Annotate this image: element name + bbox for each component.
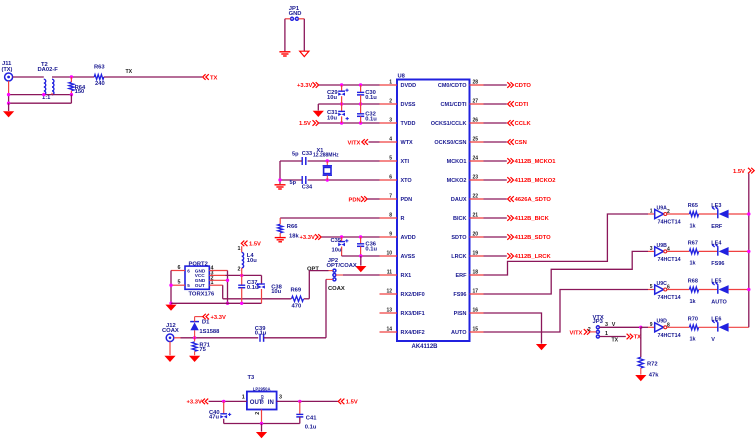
svg-text:TVDD: TVDD xyxy=(401,121,416,127)
U8 right pin 17 FS96 xyxy=(470,293,484,295)
connector J12 COAX xyxy=(166,334,174,342)
svg-text:5: 5 xyxy=(187,283,190,288)
inverter U9C 74HCT14 xyxy=(648,289,655,291)
capacitor C31 10u xyxy=(341,104,343,111)
svg-text:4112B_LRCK: 4112B_LRCK xyxy=(515,254,552,260)
U8 left pin 8 R xyxy=(380,217,398,219)
net label 4112B_SDTO xyxy=(507,234,513,240)
svg-text:150: 150 xyxy=(75,89,85,95)
wire ERF pin18 to U9A input xyxy=(484,214,649,275)
svg-text:MCKO2: MCKO2 xyxy=(447,178,467,184)
svg-text:AVSS: AVSS xyxy=(401,254,416,260)
svg-text:74HCT14: 74HCT14 xyxy=(658,333,681,339)
svg-text:0.1u: 0.1u xyxy=(365,95,377,101)
svg-text:R65: R65 xyxy=(688,203,698,209)
svg-text:XTO: XTO xyxy=(401,178,413,184)
svg-text:MCKO1: MCKO1 xyxy=(447,159,467,165)
svg-text:75: 75 xyxy=(199,347,206,353)
svg-text:TX: TX xyxy=(210,75,218,81)
net label CDTI xyxy=(508,101,514,107)
svg-text:D1: D1 xyxy=(202,319,210,325)
junction dots primary bottom xyxy=(7,93,10,96)
svg-text:V: V xyxy=(711,337,715,343)
capacitor C32 0.1u xyxy=(360,104,362,114)
wire 1.5V to pin3 TVDD xyxy=(319,122,380,124)
U8 right pin 22 DAUX xyxy=(470,198,484,200)
wire XTO pin6 xyxy=(308,179,380,181)
wire PORT2 pin3 VCC rail xyxy=(209,274,225,276)
junction dots PORT2 left xyxy=(169,284,172,287)
op IC U8 AK4112B body xyxy=(397,80,470,342)
svg-text:1k: 1k xyxy=(690,299,697,305)
svg-text:RX2/DIF0: RX2/DIF0 xyxy=(401,292,425,298)
svg-text:DVSS: DVSS xyxy=(401,102,416,108)
wire JP3 pin3 to U9D node xyxy=(599,326,640,328)
wire U9D node to U9D input xyxy=(641,326,648,328)
svg-text:CM0/CDTO: CM0/CDTO xyxy=(438,83,467,89)
svg-text:17: 17 xyxy=(473,288,479,294)
svg-text:OCKS0/CSN: OCKS0/CSN xyxy=(434,140,466,146)
svg-text:LE5: LE5 xyxy=(711,279,721,285)
ground open-triangle right of JP1 xyxy=(300,51,309,56)
resistor R64 150 xyxy=(70,77,72,82)
wire primary bottom rail xyxy=(9,94,72,96)
U8 right pin 24 MCKO1 xyxy=(470,160,484,162)
wire C33 left to ground leg xyxy=(280,160,302,162)
power 1.5V label above L4 xyxy=(241,241,247,247)
svg-text:AUTO: AUTO xyxy=(451,330,467,336)
wire FS96 pin17 to U9B input xyxy=(484,251,649,294)
wire LE3 to 1.5V rail xyxy=(729,213,749,215)
U8 right pin 18 ERF xyxy=(470,274,484,276)
svg-text:0.1u: 0.1u xyxy=(365,117,377,123)
wire pin 21 to net 4112B_BICK xyxy=(484,217,507,219)
jumper JP2 OPT/COAX xyxy=(333,269,336,272)
wire J12 shell to ground xyxy=(169,342,171,356)
ground at PISN xyxy=(536,344,547,350)
svg-text:1: 1 xyxy=(650,209,653,215)
svg-text:R69: R69 xyxy=(291,287,302,293)
wire U9C output to R68 xyxy=(667,289,690,291)
inductor L4 10u xyxy=(242,252,244,268)
svg-text:0.1u: 0.1u xyxy=(365,247,377,253)
wire pin 22 to net 4626A_SDTO xyxy=(484,198,507,200)
resistor R69 470 xyxy=(292,296,304,301)
LED LE3 ERF xyxy=(717,210,719,219)
wire U9A output to R65 xyxy=(667,213,690,215)
svg-text:28: 28 xyxy=(473,79,479,85)
net label 4112B_MCKO2 xyxy=(507,177,513,183)
svg-text:22: 22 xyxy=(473,193,479,199)
U8 right pin 28 CM0/CDTO xyxy=(470,84,484,86)
wire AVSS pin10 rail xyxy=(342,255,380,257)
svg-text:VITX: VITX xyxy=(570,330,583,336)
resistor R67 1k xyxy=(689,249,698,254)
U8 right pin 21 BICK xyxy=(470,217,484,219)
U8 right pin 26 OCKS1/CCLK xyxy=(470,122,484,124)
U8 left pin 1 DVDD xyxy=(380,84,398,86)
wire PORT2 pin4 to ground rail xyxy=(209,270,227,272)
transformer T2 DA02-F xyxy=(44,79,46,95)
svg-text:LE6: LE6 xyxy=(711,316,721,322)
svg-text:AUTO: AUTO xyxy=(711,299,727,305)
wire pin 26 to net CCLK xyxy=(484,122,507,124)
U8 right pin 25 OCKS0/CSN xyxy=(470,141,484,143)
svg-text:+3.3V: +3.3V xyxy=(187,400,202,406)
svg-text:2: 2 xyxy=(588,327,591,333)
ground below R72 xyxy=(635,375,646,381)
wire PORT2 pin1 OUT to R69 xyxy=(209,284,222,286)
wire T3 bottom rail xyxy=(224,423,300,425)
wire AVSS to ground xyxy=(360,256,362,266)
svg-text:5: 5 xyxy=(389,155,392,161)
U8 left pin 5 XTI xyxy=(380,160,398,162)
capacitor C29 10u xyxy=(341,85,343,91)
svg-text:7: 7 xyxy=(389,193,392,199)
svg-text:DVDD: DVDD xyxy=(401,83,417,89)
svg-text:PDN: PDN xyxy=(349,197,361,203)
jumper JP3 VTX xyxy=(596,326,599,329)
resistor R72 47k xyxy=(638,357,643,368)
svg-text:TX: TX xyxy=(634,335,642,341)
net label 4112B_BICK xyxy=(507,215,513,221)
junction dot C41 node xyxy=(298,400,301,403)
net label 4112B_MCKO1 xyxy=(507,158,513,164)
svg-text:DAUX: DAUX xyxy=(451,197,467,203)
wire T2 secondary top to node xyxy=(52,76,94,78)
junction dot lower rail xyxy=(7,102,10,105)
junction dot AVSS xyxy=(359,254,362,257)
wire LE4 to 1.5V rail xyxy=(729,250,749,252)
svg-text:PISN: PISN xyxy=(454,311,467,317)
wire R68 to LE5 xyxy=(699,289,718,291)
wire JP1 pin2 to right xyxy=(298,18,304,20)
svg-text:(TX): (TX) xyxy=(2,67,13,73)
U8 right pin 20 SDTO xyxy=(470,236,484,238)
resistor R71 75 xyxy=(194,338,196,342)
wire U9D node to R72 xyxy=(640,327,642,357)
svg-text:U8: U8 xyxy=(398,74,406,80)
ground below PORT2 xyxy=(165,305,176,311)
wire pin 24 to net 4112B_MCKO1 xyxy=(484,160,507,162)
svg-text:R68: R68 xyxy=(688,279,698,285)
inverter U9A 74HCT14 xyxy=(648,213,655,215)
ground at AVSS xyxy=(355,266,366,272)
wire 1.5V to L4 xyxy=(241,246,243,252)
optical receiver PORT2 TORX176 xyxy=(185,266,209,289)
svg-text:4112B_SDTO: 4112B_SDTO xyxy=(515,235,551,241)
svg-text:9: 9 xyxy=(650,322,653,328)
svg-text:IN: IN xyxy=(268,400,274,406)
svg-text:C34: C34 xyxy=(302,185,313,191)
svg-text:18: 18 xyxy=(473,269,479,275)
svg-text:ERF: ERF xyxy=(711,224,723,230)
wire to ground below J11 xyxy=(8,103,10,111)
svg-text:2: 2 xyxy=(255,412,261,415)
resistor R63 240 xyxy=(94,75,104,80)
wire AUTO pin15 to U9C input xyxy=(484,290,649,333)
svg-text:16: 16 xyxy=(473,307,479,313)
wire U9B output to R67 xyxy=(667,250,690,252)
svg-text:GND: GND xyxy=(260,395,265,404)
wire R65 to LE3 xyxy=(699,213,718,215)
svg-text:10u: 10u xyxy=(247,258,257,264)
svg-text:470: 470 xyxy=(292,304,302,310)
svg-text:3: 3 xyxy=(389,117,392,123)
capacitor C37 0.1u xyxy=(241,275,243,285)
svg-text:10u: 10u xyxy=(332,247,342,253)
svg-text:SDTO: SDTO xyxy=(451,235,467,241)
svg-text:4626A_SDTO: 4626A_SDTO xyxy=(515,197,552,203)
wire crystal ground leg xyxy=(279,161,281,184)
U8 left pin 12 RX2/DIF0 xyxy=(380,293,398,295)
capacitor C36 0.1u xyxy=(360,237,362,244)
PORT2 pin6 stub xyxy=(171,270,185,272)
svg-text:WTX: WTX xyxy=(401,140,414,146)
svg-text:5: 5 xyxy=(650,284,653,290)
svg-text:C35: C35 xyxy=(331,238,342,244)
resistor R68 1k xyxy=(689,287,698,292)
svg-text:4112B_MCKO1: 4112B_MCKO1 xyxy=(515,159,557,165)
junction dots DVDD rail xyxy=(340,83,343,86)
svg-text:4112B_BICK: 4112B_BICK xyxy=(515,216,550,222)
svg-text:12.288MHz: 12.288MHz xyxy=(313,153,339,159)
svg-text:1k: 1k xyxy=(690,223,697,229)
net label CCLK xyxy=(508,120,514,126)
svg-text:LE3: LE3 xyxy=(711,203,721,209)
svg-text:3: 3 xyxy=(279,395,282,401)
svg-text:11: 11 xyxy=(387,269,393,275)
junction dots pin2 leg xyxy=(226,279,229,282)
inverter U9D 74HCT14 xyxy=(648,326,655,328)
svg-text:74HCT14: 74HCT14 xyxy=(658,295,681,301)
svg-text:1: 1 xyxy=(242,395,245,401)
svg-text:COAX: COAX xyxy=(328,286,345,292)
svg-text:XTI: XTI xyxy=(401,159,410,165)
svg-text:RX1: RX1 xyxy=(401,273,412,279)
junction dot VCC node xyxy=(240,274,243,277)
U8 right pin 23 MCKO2 xyxy=(470,179,484,181)
svg-text:2: 2 xyxy=(389,98,392,104)
svg-text:26: 26 xyxy=(473,117,479,123)
wire J12 to C39 xyxy=(174,337,181,339)
svg-text:VITX: VITX xyxy=(348,140,361,146)
net label TX (left chevron) xyxy=(203,74,209,80)
svg-text:13: 13 xyxy=(386,307,392,313)
U8 left pin 9 AVDD xyxy=(380,236,398,238)
svg-text:PDN: PDN xyxy=(401,197,413,203)
svg-text:CCLK: CCLK xyxy=(515,121,532,127)
U8 right pin 19 LRCK xyxy=(470,255,484,257)
svg-text:LRCK: LRCK xyxy=(451,254,466,260)
wire to ground below T3 xyxy=(261,424,263,432)
svg-text:4112B_MCKO2: 4112B_MCKO2 xyxy=(515,178,556,184)
wire LE5 to 1.5V rail xyxy=(729,289,749,291)
capacitor C39 0.1u xyxy=(259,334,261,342)
svg-text:+3.3V: +3.3V xyxy=(211,315,226,321)
wire PORT2 left ground leg xyxy=(170,271,172,304)
wire J11 down leg xyxy=(8,81,10,95)
LED LE6 V xyxy=(717,323,719,332)
capacitor C33 5p xyxy=(301,157,303,165)
svg-text:R63: R63 xyxy=(94,65,105,71)
wire C39 to JP2 COAX leg xyxy=(264,337,326,339)
svg-text:OUT: OUT xyxy=(195,283,205,288)
svg-text:5: 5 xyxy=(178,280,181,286)
svg-text:ERF: ERF xyxy=(456,273,468,279)
svg-text:14: 14 xyxy=(386,326,392,332)
svg-text:24: 24 xyxy=(473,155,479,161)
diode D1 1S1588 xyxy=(194,330,196,338)
svg-text:T3: T3 xyxy=(248,375,256,381)
svg-text:U9A: U9A xyxy=(657,205,668,211)
wire L4 to VCC node xyxy=(241,268,243,275)
ground below J12 xyxy=(164,356,175,362)
svg-text:DA02-F: DA02-F xyxy=(38,67,59,73)
net label CDTO xyxy=(507,82,513,88)
net label 4626A_SDTO xyxy=(508,196,514,202)
svg-text:21: 21 xyxy=(473,212,479,218)
svg-text:TX: TX xyxy=(126,69,133,75)
svg-text:LE4: LE4 xyxy=(711,240,722,246)
svg-text:U9C: U9C xyxy=(657,281,668,287)
U8 left pin 7 PDN xyxy=(380,198,398,200)
svg-text:6: 6 xyxy=(178,265,181,271)
crystal X1 12.288MHz xyxy=(326,159,329,162)
svg-text:+3.3V: +3.3V xyxy=(297,83,312,89)
svg-text:1.5V: 1.5V xyxy=(299,121,311,127)
svg-text:20: 20 xyxy=(473,231,479,237)
svg-text:15: 15 xyxy=(473,326,479,332)
svg-text:C41: C41 xyxy=(306,415,317,421)
ground at DVSS xyxy=(313,111,324,117)
svg-text:1.5V: 1.5V xyxy=(249,242,261,248)
svg-text:COAX: COAX xyxy=(162,328,179,334)
svg-text:8: 8 xyxy=(389,212,392,218)
wire pin 28 to net CDTO xyxy=(484,84,507,86)
wire JP3 pin1 to TX label xyxy=(599,336,625,338)
wire +3.3V to pin1 DVDD xyxy=(319,84,380,86)
U8 left pin 13 RX3/DIF1 xyxy=(380,312,398,314)
wire pin8 R to R66 xyxy=(280,217,379,219)
U8 left pin 10 AVSS xyxy=(380,255,398,257)
svg-text:10u: 10u xyxy=(327,115,337,121)
wire T3 OUT to +3.3V xyxy=(209,400,247,402)
svg-text:TORX176: TORX176 xyxy=(189,292,215,298)
svg-text:1k: 1k xyxy=(690,337,697,343)
U8 right pin 15 AUTO xyxy=(470,331,484,333)
U8 left pin 14 RX4/DIF2 xyxy=(380,331,398,333)
svg-text:RX4/DIF2: RX4/DIF2 xyxy=(401,330,425,336)
wire +3.3V to pin9 AVDD xyxy=(322,236,380,238)
wire U9D output to R70 xyxy=(667,326,690,328)
svg-text:12: 12 xyxy=(386,288,392,294)
wire pin 19 to net 4112B_LRCK xyxy=(484,255,507,257)
U8 left pin 2 DVSS xyxy=(380,103,398,105)
ground below J11 xyxy=(3,111,14,117)
svg-text:1: 1 xyxy=(605,331,608,337)
capacitor C40 47u xyxy=(223,401,225,413)
svg-text:10u: 10u xyxy=(271,289,281,295)
junction dots TVDD rail xyxy=(340,121,343,124)
wire JP1 pin1 to left xyxy=(285,18,291,20)
U8 left pin 4 WTX xyxy=(380,141,398,143)
wire pin 25 to net CSN xyxy=(484,141,507,143)
capacitor C34 5p xyxy=(301,176,303,184)
capacitor C38 10u xyxy=(261,275,263,283)
wire JP2 pin3 COAX down xyxy=(326,278,333,280)
U8 right pin 27 CM1/CDTI xyxy=(470,103,484,105)
svg-text:CSN: CSN xyxy=(515,140,527,146)
ground rail under TORX cluster xyxy=(171,302,262,304)
svg-text:6: 6 xyxy=(389,174,392,180)
svg-text:47k: 47k xyxy=(649,373,659,379)
svg-text:23: 23 xyxy=(473,174,479,180)
svg-text:FS96: FS96 xyxy=(453,292,466,298)
U8 right pin 16 PISN xyxy=(470,312,484,314)
wire lower return rail xyxy=(9,102,72,104)
ground below T3 xyxy=(256,432,267,438)
wire JP2 pin2 to RX1 pin11 xyxy=(336,274,343,276)
wire JP2 pin1 OPT to R69 xyxy=(329,270,333,272)
svg-text:74HCT14: 74HCT14 xyxy=(658,220,681,226)
svg-text:AVDD: AVDD xyxy=(401,235,416,241)
inverter U9B 74HCT14 xyxy=(648,250,655,252)
wire PISN pin16 to ground xyxy=(484,313,542,344)
wire T3 GND pin2 drop xyxy=(261,410,263,424)
svg-text:1S1588: 1S1588 xyxy=(199,329,220,335)
svg-text:V: V xyxy=(612,322,616,328)
svg-text:10u: 10u xyxy=(327,95,337,101)
svg-text:3: 3 xyxy=(605,322,608,328)
svg-text:74HCT14: 74HCT14 xyxy=(658,257,681,263)
LED LE5 AUTO xyxy=(717,285,719,294)
svg-text:9: 9 xyxy=(389,231,392,237)
svg-text:5p: 5p xyxy=(290,180,297,186)
junction dot D1/R71 node xyxy=(193,336,196,339)
capacitor C41 0.1u xyxy=(299,401,301,414)
svg-text:R70: R70 xyxy=(688,316,698,322)
svg-text:OCKS1/CCLK: OCKS1/CCLK xyxy=(431,121,467,127)
svg-text:25: 25 xyxy=(473,136,479,142)
power +3.3V label above D1 xyxy=(195,316,204,318)
wire DVSS to ground xyxy=(317,104,319,111)
wire XTI pin5 xyxy=(308,160,380,162)
node junction T2/R64 top xyxy=(70,75,73,78)
wire J11 to transformer T2 primary top xyxy=(13,76,44,78)
ground below R71 xyxy=(189,356,200,362)
junction dots DVSS rail xyxy=(340,102,343,105)
svg-text:TX: TX xyxy=(612,338,619,344)
svg-text:10: 10 xyxy=(386,250,392,256)
svg-text:2: 2 xyxy=(238,267,241,273)
capacitor C35 10u xyxy=(341,237,343,241)
svg-text:5p: 5p xyxy=(292,152,299,158)
junction dot C40 node xyxy=(222,400,225,403)
connector J11 (TX) xyxy=(5,73,13,81)
PORT2 pin5 stub xyxy=(171,284,185,286)
wire PDN to pin7 xyxy=(368,198,380,200)
U8 left pin 3 TVDD xyxy=(380,122,398,124)
svg-text:1k: 1k xyxy=(690,261,697,267)
ground below crystal caps xyxy=(275,184,286,186)
svg-text:1: 1 xyxy=(238,246,241,252)
capacitor C30 0.1u xyxy=(360,85,362,92)
resistor R70 1k xyxy=(689,325,698,330)
svg-text:CDTI: CDTI xyxy=(515,102,529,108)
svg-text:+3.3V: +3.3V xyxy=(300,235,315,241)
wire T3 IN to 1.5V xyxy=(277,400,338,402)
